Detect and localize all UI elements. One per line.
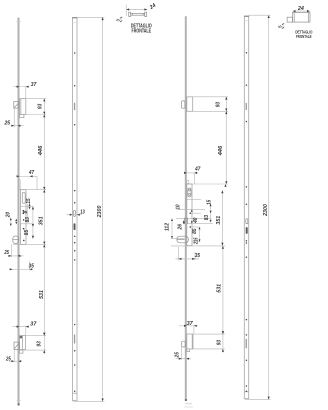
svg-text:85: 85 — [24, 229, 30, 235]
dim 25 mid: line — [8, 255, 23, 257]
dim 35: right arrow — [30, 268, 33, 270]
right case ext 223.7 — [185, 223, 213, 225]
dim 35: left arrow — [10, 268, 13, 270]
right top hook box — [187, 97, 193, 112]
right dim 93 top: ext top — [187, 96, 229, 98]
left rod tick bottom — [16, 400, 21, 402]
dim 351: line — [43, 190, 45, 245]
bottom hook dark corner blob — [20, 336, 22, 339]
svg-text:8: 8 — [23, 211, 29, 214]
dim 351: arrow down — [43, 242, 45, 245]
svg-text:531: 531 — [216, 284, 222, 293]
right dim 35: left arrow — [179, 258, 182, 260]
right dim 93 top: arrow down — [225, 109, 227, 112]
svg-text:20: 20 — [6, 212, 12, 218]
svg-text:10: 10 — [175, 204, 181, 209]
right dim 93 bottom: ext top — [187, 333, 225, 335]
case hole 4 — [23, 240, 25, 242]
svg-text:37: 37 — [30, 321, 37, 327]
svg-text:47: 47 — [28, 170, 35, 176]
svg-text:93: 93 — [216, 102, 222, 107]
right bottom hook divider — [191, 334, 193, 349]
dim 37 top: left arrow — [17, 86, 20, 88]
slider guide under hook — [20, 115, 24, 118]
faceplate cylinder slot (dark) — [74, 223, 76, 230]
dim 25 bottom: left arrow — [11, 360, 14, 362]
right faceplate bottom cap — [244, 391, 248, 393]
right dim 15/83 shared line — [210, 204, 212, 223]
right dim 351: arrow down — [221, 243, 223, 246]
dim 25 bottom: right arrow — [18, 360, 21, 362]
dim 37 top: line — [13, 86, 29, 88]
right faceplate follower slot — [246, 219, 248, 224]
right dim 25 bottom: left arrow — [179, 358, 182, 360]
right dim 83: arrow down — [210, 220, 212, 222]
dim 37 bottom: line — [13, 326, 30, 328]
case holes pair — [22, 210, 24, 212]
dim 2300 right: line — [268, 15, 270, 399]
svg-text:83: 83 — [25, 217, 31, 222]
detail R: profile outer — [293, 13, 311, 23]
dim 37 top: right arrow — [26, 86, 29, 88]
right dim 25 bottom: ext — [181, 347, 183, 360]
dim 2300 left: ext top — [77, 16, 104, 18]
small dim arrows near bar — [15, 219, 17, 221]
right dim 47: left arrow — [184, 172, 187, 174]
faceplate marking top — [74, 103, 75, 110]
right dim 35: right arrow — [192, 258, 195, 260]
right dim 446: arrow up — [225, 111, 227, 114]
dim 37 top: ext line — [25, 87, 27, 99]
dim 20: arrow up — [10, 218, 12, 220]
right dim 37 bottom: ext — [193, 326, 195, 334]
right ext 213.2 — [192, 212, 202, 214]
left rod bottom dark tip — [18, 403, 20, 405]
detail R: left tab — [287, 17, 292, 22]
dim 93 bottom: arrow up — [43, 333, 45, 336]
dim 446: line — [43, 115, 45, 190]
dim 446: arrow down — [43, 187, 45, 190]
right dim 112: ext bottom — [171, 238, 187, 240]
dim 83/85: ext top — [21, 205, 34, 207]
right dim 93 top: ext bottom — [187, 110, 228, 112]
detail L: right flange — [145, 12, 147, 16]
svg-text:25: 25 — [4, 250, 10, 256]
faceplate marking bottom — [74, 335, 75, 344]
svg-text:25: 25 — [174, 351, 180, 358]
right dim 47: right arrow — [194, 172, 197, 174]
dim 93 bottom: ext bottom — [20, 349, 46, 351]
right bottom slider guide — [187, 349, 190, 352]
right case dark box — [184, 218, 187, 224]
detail L: dim 24 line — [126, 9, 147, 11]
dim 25 mid: right arrow — [18, 255, 21, 257]
dim 13: line — [66, 214, 82, 216]
svg-text:25: 25 — [4, 121, 12, 127]
right dim 15: arrow up — [210, 204, 212, 206]
svg-text:26: 26 — [177, 224, 183, 230]
dim 25 bottom: line — [9, 360, 22, 362]
dim 93 top: ext top — [18, 98, 46, 100]
follower slot — [22, 192, 25, 203]
dim 25 bottom: ext line — [13, 350, 15, 363]
right dim 26: arrows near bar — [183, 220, 185, 222]
dim 20: arrow down — [10, 224, 12, 226]
right dim 25 bottom: right arrow — [186, 358, 189, 360]
svg-text:37: 37 — [31, 82, 38, 88]
dim 93 top: arrow down — [43, 112, 45, 115]
dim 93 top: ext bottom — [20, 114, 46, 116]
svg-text:15: 15 — [207, 199, 213, 205]
lock case outline — [21, 190, 27, 245]
dim 2300 left: ext bottom — [73, 400, 104, 402]
right front-view faceplate — [244, 16, 248, 399]
right dim 40: arrow down — [191, 221, 193, 223]
dim 25 top: line — [11, 125, 24, 127]
right rod bottom dark tip — [185, 399, 187, 401]
detail R: dim 5 line — [282, 23, 284, 29]
right dim 47: ext — [193, 173, 195, 184]
top hook bolt protrusion (left) — [14, 102, 19, 109]
svg-text:93: 93 — [37, 104, 43, 109]
detail L: web inner right — [142, 13, 144, 15]
right dim 112: arrow up — [171, 219, 173, 221]
dim 2300 right: ext top — [249, 14, 271, 16]
right bottom hook box — [187, 334, 193, 349]
svg-text:24: 24 — [297, 6, 304, 12]
right bottom hook stub — [182, 341, 186, 347]
top hook box (right of rod) — [20, 99, 26, 115]
svg-text:351: 351 — [38, 216, 44, 225]
right faceplate marking top — [246, 103, 247, 110]
svg-text:40: 40 — [193, 217, 199, 223]
dim 2300 right: arrow down — [268, 397, 270, 400]
dim 85: arrow down — [32, 236, 34, 239]
right top hook stub (left) — [182, 101, 185, 108]
right dim 351: line — [221, 190, 223, 245]
right dim 40: arrow up — [191, 209, 193, 211]
right dim 85: arrow down — [199, 239, 201, 241]
dim 25 mid: ext line — [10, 244, 12, 257]
dim 93 top: arrow up — [43, 99, 45, 102]
top hook box divider — [20, 99, 22, 115]
right dim 37 bottom: line — [179, 325, 198, 327]
svg-text:93: 93 — [37, 341, 43, 346]
detail R: dim 24 arrow right — [307, 10, 310, 12]
dim 47: right arrow — [30, 175, 33, 177]
detail R: dim 5 ticks — [282, 23, 284, 28]
detail L: dim 3 line — [120, 17, 122, 23]
dim 83/85: shared line — [32, 206, 34, 238]
dim 93 bottom: arrow down — [43, 350, 45, 353]
left rod tick top — [16, 20, 21, 22]
left side-view rod — [18, 18, 20, 404]
detail L: web inner left — [132, 13, 134, 15]
faceplate top cap — [72, 17, 77, 19]
right dim 93 bottom: line — [222, 330, 224, 352]
detail R: profile inner right — [307, 13, 309, 23]
lock case bottom ext — [13, 243, 46, 245]
dim 37 bottom: ext line — [25, 327, 27, 336]
bottom hook diagonal — [14, 343, 19, 348]
detail L: web — [131, 13, 145, 15]
dim 531: line — [43, 244, 45, 335]
dim 37 bottom: left arrow — [17, 326, 20, 328]
right case hole 1 — [190, 212, 192, 214]
dim 2300 right: ext bottom — [245, 398, 271, 400]
right dim 531: line — [222, 246, 224, 334]
right dim 15: arrow mid — [210, 211, 212, 213]
right dim 93 top: line — [225, 97, 227, 112]
dim 13: left arrow — [70, 214, 73, 216]
dim 37 bottom: right arrow — [26, 326, 29, 328]
left front-view faceplate — [73, 18, 78, 401]
bottom hook box — [20, 336, 26, 350]
dim 15: arrow down — [29, 207, 31, 209]
case hole 3 — [23, 228, 25, 230]
right dim 85: line — [199, 227, 201, 242]
rod edge segment above case — [19, 179, 21, 189]
right dim 35: line — [176, 258, 200, 260]
bottom slider guide — [20, 350, 23, 353]
right dim 531: arrow down — [222, 331, 224, 334]
right dim 25 bottom: line — [176, 358, 192, 360]
dim 93 bottom: line — [43, 332, 45, 355]
dim 93 top: line — [43, 99, 45, 115]
right dim 446: line — [225, 111, 227, 184]
right dim 85: arrow up — [199, 227, 201, 229]
right faceplate top cap — [244, 15, 249, 17]
dim 47: line — [19, 175, 37, 177]
right dim 531: arrow up — [222, 246, 224, 249]
dim 13: right arrow — [77, 214, 80, 216]
svg-text:13: 13 — [80, 209, 85, 215]
cylinder inner line — [13, 239, 19, 241]
right follower slot — [188, 188, 191, 197]
right dim 37 bottom: right arrow — [194, 325, 197, 327]
svg-text:2300: 2300 — [263, 204, 269, 217]
right lock case top ext — [185, 183, 228, 185]
faceplate follower slot — [74, 211, 76, 217]
svg-text:112: 112 — [165, 223, 171, 231]
dim 531: arrow up — [43, 244, 45, 247]
dim 15: line — [29, 204, 31, 210]
svg-text:47: 47 — [194, 167, 201, 173]
dim 47: ext line — [36, 176, 38, 189]
detail R: profile inner left — [293, 13, 295, 23]
right case hole 2 — [190, 226, 192, 228]
dim 35: line — [10, 268, 31, 270]
svg-text:531: 531 — [39, 290, 45, 299]
svg-text:2300: 2300 — [97, 206, 103, 219]
svg-text:351: 351 — [216, 216, 222, 225]
detail R: dim 24 line — [293, 10, 311, 12]
right dim 93 bottom: arrow down — [222, 349, 224, 352]
svg-text:35: 35 — [195, 253, 201, 259]
small bracket above right case — [187, 180, 189, 183]
dim 446: arrow up — [43, 115, 45, 118]
faceplate bottom cap — [73, 392, 78, 394]
right dim 112: line — [171, 219, 173, 239]
cylinder (left protrusion) — [13, 236, 19, 244]
dim 20: line — [10, 218, 12, 226]
dim 25 top: ext line — [13, 108, 15, 127]
dim 83/85: aux ext — [26, 204, 28, 222]
detail R: dim 24 arrow left — [293, 10, 296, 12]
right side-view rod — [185, 16, 187, 400]
svg-text:215: 215 — [194, 237, 200, 245]
right case ext 209 — [177, 208, 206, 210]
dim 47: left arrow — [17, 175, 20, 177]
svg-text:37: 37 — [187, 321, 194, 327]
right dim 35: ext left — [178, 247, 180, 260]
case hole 2 — [23, 219, 25, 221]
right dim 446: arrow down — [225, 181, 227, 184]
right dim 112: arrow down — [171, 236, 173, 238]
dim 2300 left: arrow down — [102, 399, 104, 402]
detail L: dim 3 ticks — [120, 17, 122, 22]
dim 35: ext line — [29, 261, 31, 270]
right cylinder (stadium) — [177, 236, 189, 243]
right dim 40: line — [191, 209, 193, 223]
dim 25 mid: left arrow — [9, 255, 12, 257]
right dim 93 top: arrow up — [225, 97, 227, 100]
svg-text:446: 446 — [218, 146, 224, 157]
dim 2300 left: arrow up — [102, 17, 104, 20]
dim 83: arrow down — [32, 224, 34, 227]
detail L: dim 24 arrow left — [126, 8, 129, 10]
bottom hook bolt protrusion — [14, 342, 19, 349]
right case ext 218.6 — [176, 218, 212, 220]
svg-text:85: 85 — [192, 228, 198, 234]
right faceplate holes — [246, 52, 248, 392]
dim 25 top: right arrow — [18, 125, 21, 127]
svg-text:83: 83 — [204, 215, 210, 220]
right faceplate cylinder slot — [246, 227, 248, 234]
svg-text:FRONTALE: FRONTALE — [132, 29, 152, 35]
svg-text:25: 25 — [5, 356, 11, 362]
right dim 85: ext — [192, 226, 201, 228]
right follower circle top — [188, 189, 190, 191]
svg-text:15: 15 — [26, 197, 32, 203]
right dim 351: arrow up — [221, 190, 223, 193]
right lock case bottom ext — [171, 245, 226, 247]
dim 83: ext mid — [21, 223, 34, 225]
dim 93 bottom: ext top — [18, 335, 46, 337]
right dim 93 bottom: ext bottom — [187, 348, 225, 350]
top hook bolt diagonal — [14, 103, 18, 108]
dim 531: arrow down — [43, 333, 45, 336]
right cylinder inner line — [177, 239, 185, 241]
detail L: ext line — [125, 5, 127, 16]
svg-text:93: 93 — [217, 340, 223, 345]
right dim 93 bottom: arrow up — [222, 331, 224, 334]
dim 2300 left: line — [102, 17, 104, 401]
right dim 37 bottom: left arrow — [184, 325, 187, 327]
detail L: left flange — [129, 12, 131, 16]
svg-text:FRONTALE: FRONTALE — [296, 34, 312, 39]
right dim 215: ext — [192, 241, 201, 243]
right case ext 199 — [187, 198, 201, 200]
svg-text:35: 35 — [29, 264, 35, 270]
right dim 35: ext right — [194, 252, 196, 260]
dim 15: arrow up — [29, 204, 31, 206]
dim 2300 right: arrow up — [268, 15, 270, 18]
lock case top ext — [18, 189, 46, 191]
right faceplate marking bottom — [246, 339, 247, 348]
right dim 47: line — [186, 172, 198, 174]
svg-text:446: 446 — [38, 146, 44, 157]
faceplate holes — [74, 52, 76, 392]
faint ghost marks below right rod — [185, 403, 192, 405]
detail L: dim 24 arrow right — [144, 8, 147, 10]
dim 25 top: left arrow — [11, 125, 14, 127]
right lock case outline — [187, 184, 192, 246]
dim 83: arrow up — [32, 207, 34, 210]
bottom hook box divider — [21, 336, 23, 350]
dim 351: arrow up — [43, 190, 45, 193]
right follower circle bottom — [188, 193, 190, 195]
